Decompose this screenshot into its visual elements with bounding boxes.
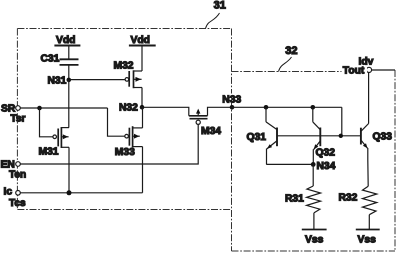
resistor R31 [307,186,321,213]
wire C31 to N31 [68,65,70,80]
wire M34 to N33 [208,107,233,116]
Vdd rail 2 bar [129,45,156,47]
node Ic junction M31 source [67,190,72,195]
terminal Tout [366,67,371,72]
svg-text:31: 31 [214,0,226,12]
wire SR to M31 gate [40,108,53,137]
wire Tout to border corner [372,69,395,71]
node N32 [140,105,145,110]
wire N32 row to M34 [144,107,189,116]
svg-text:Vdd: Vdd [56,35,75,46]
ground Vss 2 [356,229,380,231]
wire Ic row [20,192,142,194]
svg-text:Q32: Q32 [316,148,336,159]
terminal SR [16,106,21,111]
transistor M33 (PMOS) [125,126,143,147]
svg-text:Tcs: Tcs [9,198,26,209]
wire M31 source down to Ic row (crosses EN row) [68,147,70,193]
svg-text:32: 32 [285,45,297,57]
node N33 [230,105,235,110]
label 31 leader [206,13,220,29]
wire Vdd2 to M32 drain [141,46,143,72]
node Q32 collector junction [311,105,316,110]
wire N33 row [232,106,342,108]
svg-text:M34: M34 [201,126,221,137]
terminal Ic [16,191,21,196]
block 32 dashed border [232,70,396,251]
wire Q31 emitter to N34 [266,163,313,165]
wire M33 source down to Ic corner (crosses EN row) [142,147,144,193]
svg-text:Ten: Ten [9,170,26,181]
svg-text:N31: N31 [48,76,67,87]
wire M33 drain up to N32 [142,107,144,128]
wire N31 to M32 gate [71,79,125,81]
C31 leader dash [57,59,62,61]
wire M32 source to N32 [141,88,143,108]
svg-text:Idv: Idv [359,57,374,68]
node N34 [311,162,316,167]
ground Vss 1 [302,229,327,231]
transistor M31 (PMOS) [53,127,69,148]
wire SR row [20,107,107,109]
node SR junction [37,106,42,111]
wire base row Q31-Q32 [277,135,320,137]
svg-text:C31: C31 [41,54,60,65]
svg-text:R31: R31 [285,194,304,205]
node base row junction [339,134,343,138]
svg-text:Vss: Vss [358,235,377,246]
wire EN row to M34 gate [20,125,198,164]
transistor Q33 (NPN, faces right) [361,72,369,186]
svg-text:M32: M32 [114,61,134,72]
svg-text:N32: N32 [119,103,138,114]
wire R31 to Vss [313,213,315,230]
wire base row to Q33 [320,135,361,137]
transistor M34 (PMOS, horizontal) [189,109,208,125]
N33 label [222,94,244,104]
capacitor C31 [60,58,79,60]
block 31 dashed border [17,29,231,252]
wire N34 to R31 [312,164,314,186]
wire R32 to Vss [368,215,370,230]
wire Vdd1 to C31 [68,46,70,59]
transistor M32 (PMOS) [125,70,142,88]
transistor Q32 (NPN, faces left) [313,107,321,164]
svg-text:M33: M33 [115,147,135,158]
transistor Q31 (NPN, faces left) [266,107,277,164]
svg-text:Ic: Ic [4,187,13,198]
wire N33 end down to base row [341,107,343,136]
wire SR row to M33 gate [108,108,125,136]
svg-text:N33: N33 [222,94,241,105]
svg-text:N34: N34 [317,161,336,172]
label 32 leader [279,57,292,72]
svg-text:Vdd: Vdd [131,35,150,46]
wire N31 down to M31 drain (crosses SR row) [68,80,70,128]
svg-text:R32: R32 [339,193,358,204]
svg-text:Q33: Q33 [373,132,393,143]
terminal EN [16,162,21,167]
node N31 [67,78,72,83]
Vdd rail 1 bar [54,45,80,47]
resistor R32 [363,186,377,214]
node Q31 collector junction [264,105,269,110]
svg-text:Vss: Vss [305,235,324,246]
svg-text:Q31: Q31 [247,132,267,143]
svg-text:M31: M31 [39,147,59,158]
Tout label [342,65,368,75]
svg-text:Tsr: Tsr [11,114,26,125]
